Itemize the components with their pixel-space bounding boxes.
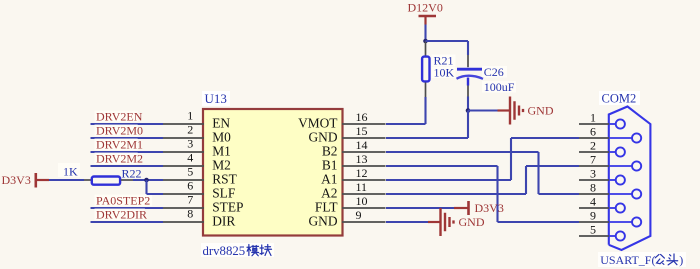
svg-text:GND: GND	[308, 214, 337, 229]
svg-text:M2: M2	[212, 158, 231, 173]
svg-text:STEP: STEP	[212, 200, 243, 215]
svg-text:4: 4	[590, 195, 596, 209]
svg-text:drv8825: drv8825	[203, 244, 246, 258]
svg-text:DRV2DIR: DRV2DIR	[96, 208, 147, 222]
svg-text:8: 8	[187, 207, 193, 221]
svg-text:COM2: COM2	[602, 92, 637, 106]
svg-text:M0: M0	[212, 130, 231, 145]
svg-text:10K: 10K	[434, 66, 455, 80]
svg-text:9: 9	[356, 208, 362, 222]
svg-text:SLF: SLF	[212, 186, 235, 201]
svg-text:A2: A2	[321, 186, 337, 201]
svg-text:GND: GND	[308, 130, 337, 145]
svg-text:GND: GND	[528, 104, 554, 118]
svg-text:C26: C26	[484, 65, 504, 79]
svg-text:3: 3	[590, 167, 596, 181]
svg-text:VMOT: VMOT	[298, 116, 337, 131]
svg-text:3: 3	[187, 137, 193, 151]
svg-text:6: 6	[187, 179, 193, 193]
svg-text:6: 6	[590, 125, 596, 139]
svg-text:9: 9	[590, 209, 596, 223]
svg-text:7: 7	[590, 153, 596, 167]
svg-text:16: 16	[356, 110, 368, 124]
svg-text:5: 5	[187, 165, 193, 179]
svg-text:15: 15	[356, 124, 368, 138]
svg-text:DRV2M2: DRV2M2	[96, 152, 143, 166]
svg-text:U13: U13	[205, 91, 227, 106]
svg-text:D3V3: D3V3	[475, 201, 504, 215]
svg-text:14: 14	[356, 138, 368, 152]
svg-text:7: 7	[187, 193, 193, 207]
svg-text:R22: R22	[122, 167, 142, 181]
svg-text:B1: B1	[322, 158, 338, 173]
svg-text:GND: GND	[459, 215, 485, 229]
svg-text:2: 2	[590, 139, 596, 153]
svg-text:13: 13	[356, 152, 368, 166]
svg-text:USART_F(: USART_F(	[600, 253, 655, 267]
svg-text:DRV2EN: DRV2EN	[96, 110, 143, 124]
svg-text:RST: RST	[212, 172, 237, 187]
svg-text:PA0STEP2: PA0STEP2	[96, 194, 150, 208]
svg-text:): )	[679, 253, 683, 267]
svg-text:EN: EN	[212, 116, 230, 131]
svg-text:11: 11	[356, 180, 368, 194]
svg-text:1K: 1K	[63, 165, 78, 179]
svg-text:4: 4	[187, 151, 193, 165]
svg-text:2: 2	[187, 123, 193, 137]
svg-text:12: 12	[356, 166, 368, 180]
svg-text:1: 1	[590, 111, 596, 125]
svg-text:DIR: DIR	[212, 214, 235, 229]
svg-text:1: 1	[187, 109, 193, 123]
svg-text:100uF: 100uF	[484, 80, 515, 94]
svg-text:10: 10	[356, 194, 368, 208]
svg-text:DRV2M1: DRV2M1	[96, 138, 143, 152]
svg-text:A1: A1	[321, 172, 337, 187]
svg-text:M1: M1	[212, 144, 231, 159]
svg-text:5: 5	[590, 223, 596, 237]
svg-text:FLT: FLT	[315, 200, 338, 215]
svg-text:D3V3: D3V3	[2, 173, 31, 187]
svg-text:D12V0: D12V0	[408, 1, 443, 15]
svg-text:B2: B2	[322, 144, 338, 159]
svg-text:DRV2M0: DRV2M0	[96, 124, 143, 138]
svg-text:8: 8	[590, 181, 596, 195]
